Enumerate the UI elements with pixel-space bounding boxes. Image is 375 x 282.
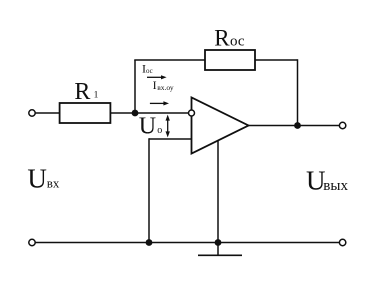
label current Ioc: [142, 61, 153, 75]
label Uвых: [306, 165, 348, 195]
terminal bottom left: [29, 239, 35, 245]
label current Iвх.оу: [153, 78, 174, 92]
wire op-amp ground pin: [217, 141, 219, 243]
wire feedback vertical right: [297, 59, 299, 125]
label Uвх: [27, 163, 60, 193]
svg-text:R: R: [74, 79, 90, 105]
wire: [35, 112, 59, 114]
terminal bottom right: [339, 239, 345, 245]
svg-text:вых: вых: [323, 178, 348, 194]
svg-text:вх.оу: вх.оу: [157, 83, 174, 92]
wire non-inverting vertical: [148, 138, 150, 242]
wire bottom rail: [35, 242, 339, 244]
svg-text:ос: ос: [230, 34, 245, 50]
node junction bottom ground: [215, 239, 222, 246]
current arrow Iвх.оу: [150, 101, 169, 105]
op-amp U1: [189, 98, 249, 154]
wire output: [249, 125, 340, 127]
svg-text:U: U: [27, 163, 47, 193]
ground: [198, 243, 242, 256]
label voltage Uo: [139, 114, 162, 140]
resistor Roc: [205, 25, 255, 70]
node junction at R1 output: [132, 110, 139, 117]
wire non-inverting input: [149, 138, 192, 140]
node junction bottom left: [146, 239, 153, 246]
wire feedback horizontal left: [134, 59, 205, 61]
svg-text:вх: вх: [47, 176, 60, 191]
current arrow Ioc: [147, 75, 167, 79]
svg-text:R: R: [214, 25, 230, 50]
svg-text:1: 1: [94, 91, 99, 101]
wire feedback vertical left: [134, 60, 136, 113]
wire: [110, 112, 188, 114]
terminal input: [29, 110, 35, 116]
svg-text:о: о: [157, 125, 162, 136]
terminal output: [339, 122, 345, 128]
svg-text:I: I: [153, 78, 157, 92]
wire feedback horizontal right: [255, 59, 298, 61]
voltage arrow Uo (double headed): [166, 115, 170, 138]
svg-text:U: U: [139, 114, 156, 140]
svg-text:ос: ос: [146, 67, 153, 75]
resistor R1: [60, 79, 111, 123]
node junction at output: [294, 122, 301, 129]
